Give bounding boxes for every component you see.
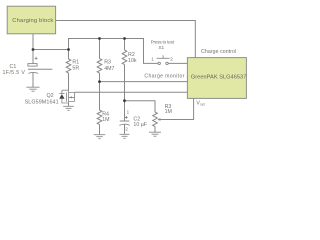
svg-text:Q2: Q2 — [46, 93, 53, 99]
node Vset — [196, 100, 204, 106]
wire charge monitor net — [100, 81, 188, 83]
wire node A horizontal — [33, 49, 69, 51]
svg-text:S1: S1 — [158, 45, 164, 50]
ground below R4 — [94, 135, 105, 139]
wire charging block bottom to C1 — [32, 34, 34, 64]
resistor R2 10k — [122, 50, 137, 65]
ground below C1 — [26, 87, 39, 91]
svg-text:2: 2 — [170, 56, 173, 61]
ground below C2 — [120, 134, 130, 138]
wire R3 bottom to R4 — [99, 73, 101, 110]
potentiometer R3 1M — [153, 104, 172, 126]
wire S1 to GreenPAK — [168, 62, 187, 64]
wire R2 top — [124, 39, 126, 51]
resistor R3 4M7 — [97, 59, 114, 74]
svg-text:4M7: 4M7 — [104, 66, 114, 72]
wire R3 top — [99, 39, 101, 59]
charging block — [7, 6, 55, 34]
svg-text:1F/5.5 V: 1F/5.5 V — [3, 70, 26, 76]
op-amp U1 GreenPAK SLG46537 — [187, 58, 246, 99]
capacitor C1 1F/5.5V — [28, 57, 52, 74]
svg-text:GreenPAK SLG46537: GreenPAK SLG46537 — [191, 74, 247, 80]
svg-text:set: set — [200, 103, 205, 107]
svg-text:R2: R2 — [128, 52, 135, 58]
svg-text:1: 1 — [151, 56, 154, 61]
switch S1 — [157, 55, 170, 64]
wire Q2 drain net to GreenPAK — [75, 91, 188, 93]
svg-text:R3: R3 — [104, 60, 111, 66]
junction dots — [32, 37, 126, 102]
wire R1 bottom to Q2 drain — [68, 73, 70, 90]
ground below Q2 — [63, 106, 74, 110]
ground below R3 — [149, 132, 161, 136]
svg-text:1M: 1M — [102, 117, 109, 123]
wire C1 to ground — [32, 73, 34, 88]
wire R1 top — [68, 50, 70, 60]
svg-text:SLG59M1641: SLG59M1641 — [25, 100, 59, 106]
svg-text:5R: 5R — [72, 66, 79, 72]
svg-text:Press to test: Press to test — [151, 40, 175, 45]
wire Q2 source to ground — [68, 103, 70, 106]
capacitor C2 10uF — [119, 109, 130, 131]
svg-text:Charging block: Charging block — [12, 18, 53, 24]
wire C2 node to potentiometer top — [125, 101, 156, 112]
svg-text:1M: 1M — [165, 109, 172, 115]
svg-text:R1: R1 — [72, 60, 79, 66]
wire R2 bottom to C2 node — [124, 65, 126, 122]
svg-text:Charge control: Charge control — [201, 49, 236, 55]
resistor R1 5R — [66, 59, 79, 73]
wire supercap bus — [69, 39, 158, 64]
wire R3 wiper to Vset — [160, 98, 194, 119]
wire C2 to ground — [124, 124, 126, 134]
resistor R4 1M — [97, 110, 109, 125]
wire R3 bottom to ground — [154, 127, 156, 133]
svg-text:10k: 10k — [128, 58, 137, 64]
svg-text:Charge monitor: Charge monitor — [144, 73, 184, 79]
transistor Q2 SLG59M1641 — [59, 90, 74, 103]
wire R4 to ground — [99, 125, 101, 135]
svg-text:10 µF: 10 µF — [133, 122, 147, 128]
wire charging block to charge control input — [56, 21, 196, 58]
